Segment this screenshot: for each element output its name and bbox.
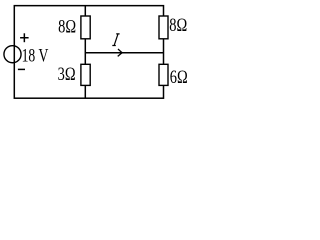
- svg-text:18 V: 18 V: [22, 44, 49, 66]
- svg-text:3Ω: 3Ω: [58, 63, 76, 84]
- svg-text:8Ω: 8Ω: [169, 14, 187, 35]
- svg-text:8Ω: 8Ω: [58, 16, 76, 37]
- svg-text:6Ω: 6Ω: [170, 66, 188, 87]
